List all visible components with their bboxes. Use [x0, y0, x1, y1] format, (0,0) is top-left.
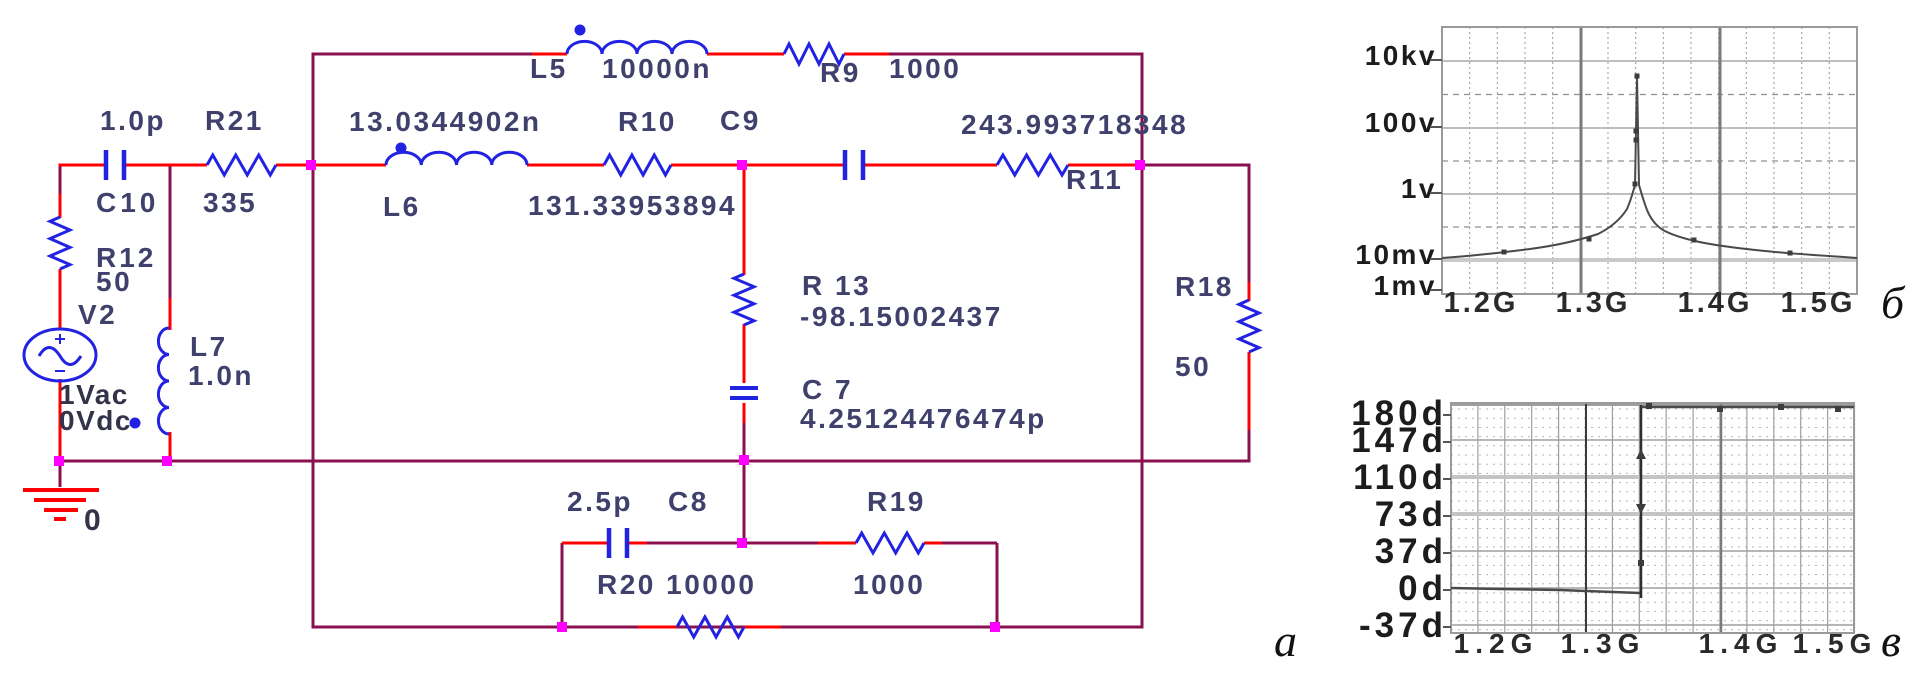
svg-text:147d: 147d	[1351, 421, 1447, 460]
svg-text:R21: R21	[205, 105, 264, 136]
svg-text:1000: 1000	[889, 53, 961, 84]
svg-text:L6: L6	[383, 191, 421, 222]
svg-text:R19: R19	[867, 486, 926, 517]
svg-text:L5: L5	[530, 53, 568, 84]
svg-text:R18: R18	[1175, 271, 1234, 302]
svg-text:0d: 0d	[1398, 569, 1447, 608]
svg-text:1.5G: 1.5G	[1793, 628, 1878, 659]
svg-text:C9: C9	[720, 105, 761, 136]
svg-text:R11: R11	[1066, 164, 1123, 195]
svg-text:0: 0	[84, 504, 103, 537]
svg-text:10000n: 10000n	[602, 53, 712, 84]
svg-text:в: в	[1881, 615, 1901, 666]
svg-text:1.2G: 1.2G	[1444, 287, 1519, 319]
svg-text:V2: V2	[78, 299, 117, 330]
svg-text:а: а	[1274, 615, 1297, 666]
svg-text:б: б	[1881, 277, 1906, 328]
svg-text:R10: R10	[618, 106, 677, 137]
svg-text:1v: 1v	[1401, 173, 1437, 204]
svg-text:10mv: 10mv	[1355, 239, 1437, 270]
svg-text:243.993718348: 243.993718348	[961, 109, 1188, 140]
svg-text:1mv: 1mv	[1373, 270, 1437, 301]
svg-text:1.3G: 1.3G	[1556, 287, 1631, 319]
svg-text:1.0n: 1.0n	[188, 360, 254, 391]
svg-text:R20 10000: R20 10000	[597, 569, 757, 600]
svg-text:1.5G: 1.5G	[1781, 287, 1856, 319]
svg-text:C10: C10	[96, 187, 159, 218]
svg-text:1.4G: 1.4G	[1699, 628, 1784, 659]
svg-text:-98.15002437: -98.15002437	[800, 301, 1003, 332]
svg-text:1000: 1000	[853, 569, 925, 600]
svg-text:50: 50	[1175, 351, 1211, 382]
svg-text:50: 50	[96, 266, 132, 297]
svg-text:R 13: R 13	[802, 270, 871, 301]
svg-text:100v: 100v	[1365, 107, 1437, 138]
svg-text:1.2G: 1.2G	[1454, 628, 1539, 659]
svg-text:C 7: C 7	[802, 374, 853, 405]
svg-text:110d: 110d	[1353, 458, 1447, 497]
svg-text:C8: C8	[668, 486, 709, 517]
svg-text:13.0344902n: 13.0344902n	[349, 106, 542, 137]
svg-text:37d: 37d	[1375, 532, 1447, 571]
svg-text:0Vdc: 0Vdc	[59, 405, 132, 436]
svg-text:335: 335	[203, 187, 257, 218]
svg-text:1.4G: 1.4G	[1678, 287, 1753, 319]
svg-text:131.33953894: 131.33953894	[528, 190, 737, 221]
svg-text:4.25124476474p: 4.25124476474p	[800, 403, 1047, 434]
svg-text:L7: L7	[190, 331, 228, 362]
svg-text:73d: 73d	[1375, 495, 1447, 534]
svg-text:2.5p: 2.5p	[567, 486, 633, 517]
svg-text:R9: R9	[820, 57, 861, 88]
svg-text:10kv: 10kv	[1365, 40, 1437, 71]
svg-text:-37d: -37d	[1359, 606, 1447, 645]
svg-text:1.3G: 1.3G	[1561, 628, 1646, 659]
svg-text:1.0p: 1.0p	[100, 105, 166, 136]
